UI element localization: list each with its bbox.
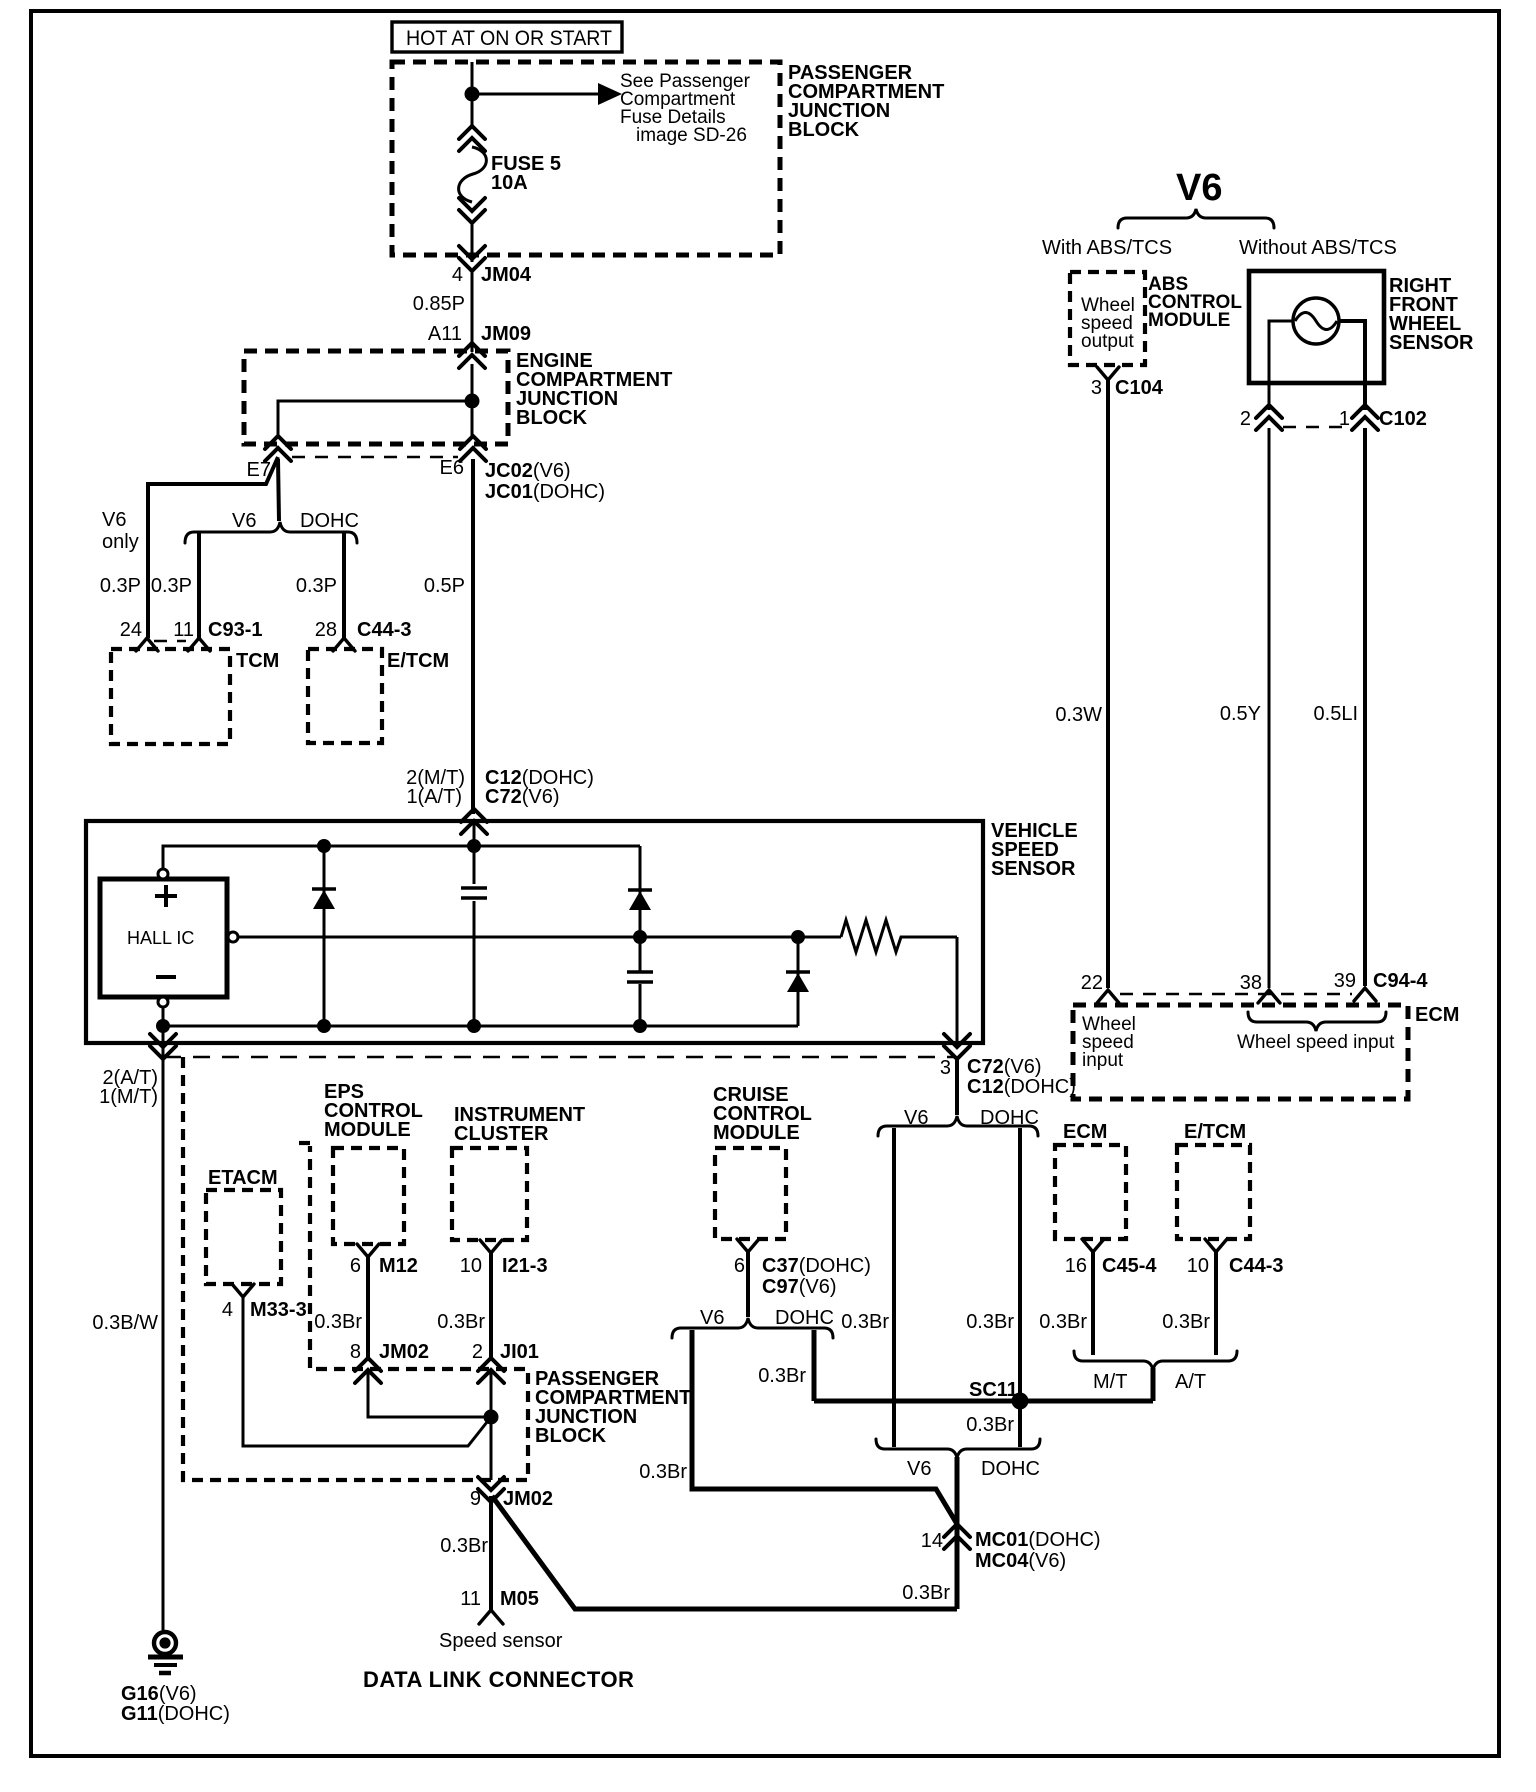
connector E7 bbox=[265, 436, 291, 461]
connector C102 pin 1 chevron bbox=[1352, 405, 1378, 430]
svg-text:0.3P: 0.3P bbox=[100, 575, 141, 597]
wire 0.3Br to M05 bbox=[489, 1496, 493, 1610]
svg-text:JC01(DOHC): JC01(DOHC) bbox=[485, 481, 605, 503]
svg-text:TCM: TCM bbox=[236, 650, 279, 672]
svg-text:1(M/T): 1(M/T) bbox=[99, 1086, 158, 1108]
svg-text:3: 3 bbox=[940, 1057, 951, 1079]
node: tap junction dot bbox=[465, 87, 480, 102]
connector E6 / JC02(V6) JC01(DOHC) bbox=[460, 436, 486, 461]
svg-text:0.5Y: 0.5Y bbox=[1220, 703, 1261, 725]
right front wheel sensor box bbox=[1249, 271, 1384, 383]
svg-text:ECM: ECM bbox=[1415, 1004, 1459, 1026]
svg-text:16: 16 bbox=[1065, 1255, 1087, 1277]
pin 24 fork bbox=[136, 638, 158, 651]
svg-text:10: 10 bbox=[460, 1255, 482, 1277]
svg-text:M/T: M/T bbox=[1093, 1371, 1127, 1393]
svg-text:DOHC: DOHC bbox=[775, 1307, 834, 1329]
svg-text:SENSOR: SENSOR bbox=[1389, 332, 1474, 354]
svg-text:I21-3: I21-3 bbox=[502, 1255, 548, 1277]
hall ic terminals (open circles) bbox=[158, 869, 168, 879]
svg-text:JC02(V6): JC02(V6) bbox=[485, 460, 571, 482]
svg-text:1(A/T): 1(A/T) bbox=[406, 786, 462, 808]
svg-text:A/T: A/T bbox=[1175, 1371, 1206, 1393]
svg-text:SENSOR: SENSOR bbox=[991, 858, 1076, 880]
svg-text:M12: M12 bbox=[379, 1255, 418, 1277]
svg-text:38: 38 bbox=[1240, 972, 1262, 994]
dashed connector line pins 22-38-39 bbox=[1120, 993, 1352, 995]
wire 0.3Br from ECM bbox=[1091, 1252, 1095, 1355]
svg-text:22: 22 bbox=[1081, 972, 1103, 994]
fuse F5 10A bbox=[459, 126, 485, 151]
svg-text:Without ABS/TCS: Without ABS/TCS bbox=[1239, 237, 1397, 259]
pin 39 fork bbox=[1354, 988, 1376, 1001]
wire cruise V6 branch down/right to MC01 bbox=[692, 1330, 957, 1524]
svg-text:MODULE: MODULE bbox=[324, 1119, 411, 1141]
svg-text:C72(V6): C72(V6) bbox=[485, 786, 560, 808]
ABS control module: wheel speed output dashed box bbox=[1070, 272, 1145, 365]
svg-text:C44-3: C44-3 bbox=[1229, 1255, 1283, 1277]
brace merge V6/DOHC above MC01 bbox=[876, 1439, 1040, 1458]
svg-text:4: 4 bbox=[452, 264, 463, 286]
wire V6 branch 0.3Br long bbox=[892, 1128, 896, 1447]
svg-text:0.3P: 0.3P bbox=[151, 575, 192, 597]
node: branch dot in ECJB bbox=[465, 394, 480, 409]
wire from ETACM to junction bbox=[243, 1297, 491, 1446]
svg-text:ECM: ECM bbox=[1063, 1121, 1107, 1143]
wire 0.3Br from E/TCM bbox=[1214, 1252, 1218, 1355]
svg-text:C104: C104 bbox=[1115, 377, 1164, 399]
svg-text:MODULE: MODULE bbox=[713, 1122, 800, 1144]
svg-text:HOT AT ON OR START: HOT AT ON OR START bbox=[406, 27, 612, 50]
svg-text:JM02: JM02 bbox=[379, 1341, 429, 1363]
ECM dashed box bbox=[1073, 1005, 1408, 1099]
svg-text:E6: E6 bbox=[440, 457, 464, 479]
diode D3 branch bbox=[797, 937, 800, 1026]
svg-text:0.5P: 0.5P bbox=[424, 575, 465, 597]
svg-text:V6: V6 bbox=[700, 1307, 724, 1329]
svg-text:C97(V6): C97(V6) bbox=[762, 1276, 837, 1298]
svg-text:C102: C102 bbox=[1379, 408, 1427, 430]
connector C104 pin 3 fork bbox=[1097, 367, 1119, 380]
svg-text:0.85P: 0.85P bbox=[413, 293, 465, 315]
resistor R1 bbox=[841, 920, 957, 952]
connector C12/C72 entry chevron bbox=[461, 809, 487, 834]
brace split V6/DOHC (TCM) bbox=[185, 522, 357, 543]
brace wheel speed input (pins 38,39) bbox=[1248, 1012, 1386, 1031]
svg-text:C94-4: C94-4 bbox=[1373, 970, 1428, 992]
svg-text:C37(DOHC): C37(DOHC) bbox=[762, 1255, 871, 1277]
diode D1 branch bbox=[323, 846, 326, 1026]
wire 0.3Br cluster bbox=[489, 1253, 493, 1358]
connector C102 pin 2 chevron bbox=[1256, 405, 1282, 430]
VSS left exit chevron 2(A/T) 1(M/T) bbox=[150, 1034, 176, 1059]
ground G16/G11 bbox=[154, 1632, 176, 1654]
pin 10 C44-3 fork bbox=[1205, 1239, 1227, 1252]
svg-text:SC11: SC11 bbox=[969, 1379, 1018, 1401]
svg-text:DOHC: DOHC bbox=[300, 510, 359, 532]
pin 38 fork bbox=[1258, 990, 1280, 1003]
svg-text:With ABS/TCS: With ABS/TCS bbox=[1042, 237, 1172, 259]
svg-text:JM02: JM02 bbox=[503, 1488, 553, 1510]
brace split V6/DOHC bbox=[878, 1116, 1038, 1136]
svg-text:28: 28 bbox=[315, 619, 337, 641]
wire 0.3P to TCM pin 11 bbox=[197, 533, 201, 638]
wire: middle rail with resistor bbox=[238, 936, 841, 939]
svg-text:0.3P: 0.3P bbox=[296, 575, 337, 597]
connector JM02 pin 9 (exit) bbox=[478, 1477, 504, 1502]
svg-text:6: 6 bbox=[350, 1255, 361, 1277]
junction dots on rails bbox=[317, 839, 331, 853]
pin 6 C37/C97 fork bbox=[737, 1239, 759, 1252]
wire: below E7 to V6-only branch and split bbox=[278, 459, 279, 521]
svg-text:0.3Br: 0.3Br bbox=[966, 1311, 1014, 1333]
wire 0.3P to E/TCM pin 28 bbox=[342, 533, 346, 638]
svg-text:4: 4 bbox=[222, 1299, 233, 1321]
E/TCM (lower) dashed box bbox=[1177, 1145, 1250, 1239]
svg-text:DATA LINK CONNECTOR: DATA LINK CONNECTOR bbox=[363, 1667, 634, 1692]
svg-text:G11(DOHC): G11(DOHC) bbox=[121, 1703, 230, 1725]
wire 0.5LI bbox=[1363, 428, 1367, 986]
vehicle speed sensor box bbox=[86, 821, 983, 1043]
dashed connector line under VSS bbox=[164, 1056, 955, 1059]
svg-text:0.3Br: 0.3Br bbox=[758, 1365, 806, 1387]
svg-text:CLUSTER: CLUSTER bbox=[454, 1123, 549, 1145]
wire 0.85P bbox=[471, 271, 474, 352]
TCM dashed box bbox=[111, 649, 230, 744]
svg-text:JI01: JI01 bbox=[500, 1341, 539, 1363]
svg-text:C12(DOHC): C12(DOHC) bbox=[967, 1076, 1076, 1098]
svg-text:HALL IC: HALL IC bbox=[127, 928, 194, 948]
svg-text:39: 39 bbox=[1334, 970, 1356, 992]
svg-text:0.3Br: 0.3Br bbox=[841, 1311, 889, 1333]
svg-text:JM09: JM09 bbox=[481, 323, 531, 345]
svg-text:E/TCM: E/TCM bbox=[1184, 1121, 1246, 1143]
wire 0.3W bbox=[1106, 380, 1110, 988]
diode D2 / capacitor C2 branch bbox=[639, 846, 642, 1026]
svg-text:V6: V6 bbox=[232, 510, 256, 532]
hall ic box bbox=[100, 879, 227, 997]
svg-text:10: 10 bbox=[1187, 1255, 1209, 1277]
wire from VSS pin3 down bbox=[955, 1058, 959, 1115]
wire 0.5Y bbox=[1268, 428, 1271, 988]
wire 0.3Br EPS bbox=[366, 1257, 370, 1358]
svg-text:V6: V6 bbox=[904, 1107, 928, 1129]
svg-text:DOHC: DOHC bbox=[981, 1458, 1040, 1480]
node: junction dot bbox=[484, 1410, 499, 1425]
svg-text:6: 6 bbox=[734, 1255, 745, 1277]
node SC11 bbox=[1012, 1393, 1029, 1410]
connector MC01/MC04 pin 14 chevron bbox=[944, 1524, 970, 1549]
svg-text:Wheel speed input: Wheel speed input bbox=[1237, 1032, 1395, 1053]
svg-text:0.3Br: 0.3Br bbox=[1039, 1311, 1087, 1333]
VSS right exit chevron pin 3 C72(V6) C12(DOHC) bbox=[944, 1034, 970, 1059]
wire: feed into junction block bbox=[471, 62, 474, 127]
pin 6 M12 fork bbox=[357, 1244, 379, 1257]
wire: bottom rail bbox=[163, 1007, 798, 1026]
ETACM dashed box bbox=[206, 1190, 281, 1284]
svg-text:11: 11 bbox=[460, 1588, 481, 1610]
pin 10 I21-3 fork bbox=[480, 1240, 502, 1253]
svg-text:V6: V6 bbox=[1176, 167, 1222, 209]
wire: arrow to fuse details note bbox=[472, 93, 600, 96]
svg-text:11: 11 bbox=[173, 619, 194, 641]
svg-text:BLOCK: BLOCK bbox=[535, 1425, 607, 1447]
wire from cruise down bbox=[746, 1252, 750, 1317]
power source label box HOT AT ON OR START bbox=[392, 22, 622, 52]
wire inside ECJB bbox=[471, 364, 474, 436]
svg-text:9: 9 bbox=[470, 1488, 481, 1510]
wires from sensor bbox=[1269, 321, 1293, 410]
wire: right output leg bbox=[956, 937, 959, 1046]
svg-text:C93-1: C93-1 bbox=[208, 619, 262, 641]
svg-text:0.3Br: 0.3Br bbox=[314, 1311, 362, 1333]
wire down through junction dot bbox=[490, 1371, 493, 1480]
svg-text:ETACM: ETACM bbox=[208, 1167, 278, 1189]
brace split V6/DOHC (cruise) bbox=[672, 1318, 833, 1338]
pin 16 C45-4 fork bbox=[1082, 1239, 1104, 1252]
wire 0.5P main down to VSS bbox=[471, 459, 475, 814]
svg-text:V6: V6 bbox=[102, 509, 126, 531]
svg-text:V6: V6 bbox=[907, 1458, 931, 1480]
svg-text:M33-3: M33-3 bbox=[250, 1299, 307, 1321]
svg-text:MC01(DOHC): MC01(DOHC) bbox=[975, 1529, 1101, 1551]
svg-text:0.5LI: 0.5LI bbox=[1314, 703, 1358, 725]
wire: branch to E7 bbox=[278, 401, 472, 436]
engine compartment junction block dashed box bbox=[244, 351, 508, 444]
svg-text:Speed sensor: Speed sensor bbox=[439, 1630, 563, 1652]
ECM (lower) dashed box bbox=[1055, 1145, 1126, 1239]
wire: top rail bbox=[163, 846, 640, 869]
svg-text:output: output bbox=[1081, 331, 1135, 352]
brace M/T A/T bbox=[1074, 1351, 1237, 1370]
svg-text:MODULE: MODULE bbox=[1148, 310, 1230, 331]
wire from merge brace down bbox=[955, 1457, 960, 1609]
pin 28 fork / C44-3 bbox=[333, 638, 355, 651]
AC sensor symbol bbox=[1293, 298, 1339, 344]
svg-text:10A: 10A bbox=[491, 172, 528, 194]
svg-text:M05: M05 bbox=[500, 1588, 539, 1610]
svg-text:0.3Br: 0.3Br bbox=[966, 1414, 1014, 1436]
svg-text:C45-4: C45-4 bbox=[1102, 1255, 1157, 1277]
wire from JM02 to junction dot bbox=[368, 1371, 491, 1417]
svg-text:0.3Br: 0.3Br bbox=[440, 1535, 488, 1557]
svg-text:MC04(V6): MC04(V6) bbox=[975, 1550, 1066, 1572]
wire: left output leg bbox=[162, 1026, 165, 1630]
svg-text:0.3Br: 0.3Br bbox=[1162, 1311, 1210, 1333]
capacitor C1 bbox=[461, 888, 487, 898]
svg-text:2: 2 bbox=[1240, 408, 1251, 430]
wire: main vertical entry branch bbox=[473, 821, 476, 1026]
svg-text:BLOCK: BLOCK bbox=[788, 119, 860, 141]
svg-text:E/TCM: E/TCM bbox=[387, 650, 449, 672]
E/TCM dashed box bbox=[308, 649, 382, 743]
pin 4 M33-3 fork bbox=[232, 1284, 254, 1297]
svg-text:C72(V6): C72(V6) bbox=[967, 1056, 1042, 1078]
svg-text:24: 24 bbox=[120, 619, 142, 641]
wire cruise DOHC branch 0.3Br to SC11 bbox=[812, 1330, 817, 1401]
svg-text:0.3B/W: 0.3B/W bbox=[92, 1312, 158, 1334]
pin 11 fork / C93-1 bbox=[188, 638, 210, 651]
connector JM04 pin 4 (exit chevron) bbox=[459, 246, 485, 271]
svg-text:3: 3 bbox=[1091, 377, 1102, 399]
svg-text:0.3W: 0.3W bbox=[1055, 704, 1102, 726]
svg-text:only: only bbox=[102, 531, 139, 553]
svg-text:0.3Br: 0.3Br bbox=[639, 1461, 687, 1483]
svg-text:8: 8 bbox=[350, 1341, 361, 1363]
svg-text:2: 2 bbox=[472, 1341, 483, 1363]
svg-text:C44-3: C44-3 bbox=[357, 619, 411, 641]
svg-text:JM04: JM04 bbox=[481, 264, 532, 286]
passenger compartment junction block (top) dashed box bbox=[392, 62, 780, 255]
svg-text:image SD-26: image SD-26 bbox=[636, 125, 747, 146]
svg-text:0.3Br: 0.3Br bbox=[902, 1582, 950, 1604]
wire DOHC branch 0.3Br bbox=[1018, 1128, 1022, 1447]
svg-text:A11: A11 bbox=[428, 323, 462, 345]
wire from M/T A/T brace down to SC11 line bbox=[1151, 1368, 1156, 1401]
pin 22 fork bbox=[1097, 990, 1119, 1003]
svg-text:BLOCK: BLOCK bbox=[516, 407, 588, 429]
svg-text:DOHC: DOHC bbox=[980, 1107, 1039, 1129]
svg-text:input: input bbox=[1082, 1050, 1124, 1071]
dashed connector line E7-E6 bbox=[292, 456, 458, 458]
brace under V6 bbox=[1118, 209, 1274, 228]
wire SC11 horizontal bbox=[814, 1399, 1153, 1404]
svg-text:G16(V6): G16(V6) bbox=[121, 1683, 197, 1705]
svg-text:14: 14 bbox=[921, 1530, 943, 1552]
svg-text:0.3Br: 0.3Br bbox=[437, 1311, 485, 1333]
